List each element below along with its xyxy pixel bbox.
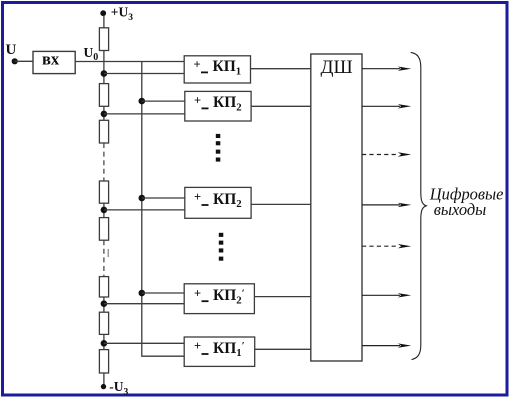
node bus junction to U3	[139, 195, 146, 202]
resistor R3	[99, 120, 108, 143]
label KP2 middle	[194, 190, 242, 210]
wire ladder segment R7-R8	[103, 334, 105, 349]
op-amp U4 comparator KP2' box	[184, 284, 254, 314]
resistor R4	[99, 181, 108, 203]
wire dashed ladder segment R3-R4	[103, 143, 105, 181]
resistor R2	[99, 84, 108, 107]
svg-text:+U3: +U3	[111, 5, 133, 24]
svg-text:+: +	[194, 190, 201, 204]
svg-text:выходы: выходы	[434, 200, 486, 219]
node -U3 terminal	[101, 384, 106, 389]
label KP1'	[194, 339, 245, 359]
svg-text:+: +	[194, 286, 201, 300]
op-amp U2 comparator KP2 box	[185, 91, 251, 121]
wire output arrow 1	[362, 67, 411, 71]
wire tap4 to U4 minus input	[104, 303, 184, 305]
wire bus to U2 plus input	[142, 100, 185, 102]
wire ladder segment R2-R3	[103, 106, 105, 120]
wire U1 output to DSh	[251, 68, 311, 70]
op-amp U3 comparator KP2 middle box	[185, 187, 251, 218]
wire U2 output to DSh	[251, 105, 311, 107]
wire dashed ladder segment R5-R6	[103, 240, 105, 276]
label KP1	[194, 58, 242, 78]
wire R8 to -U3 terminal	[103, 373, 105, 385]
decoder U6 DSh box	[311, 54, 362, 361]
wire bus to U4 plus input	[142, 292, 184, 294]
svg-text:+: +	[194, 339, 201, 353]
svg-text:ДШ: ДШ	[321, 57, 353, 78]
resistor R5	[99, 218, 108, 241]
ellipsis dots group 1	[216, 134, 221, 162]
input buffer BX box	[33, 51, 75, 73]
resistor R8	[99, 350, 108, 373]
wire U terminal to BX box	[15, 60, 33, 62]
wire ladder segment R6-R7	[103, 297, 105, 312]
svg-text:вх: вх	[42, 50, 60, 69]
node +U3 terminal	[100, 10, 106, 16]
wire output arrow 7	[362, 343, 411, 347]
stray dash mark	[107, 249, 109, 257]
wire from +U3 to R1	[103, 16, 105, 28]
node tap 5 junction	[101, 340, 108, 347]
label KP2	[194, 94, 242, 114]
label KP2'	[194, 286, 245, 306]
svg-text:U: U	[6, 42, 17, 58]
resistor R6	[99, 277, 108, 297]
wire U4 output to DSh	[254, 296, 310, 298]
resistor R7	[99, 312, 108, 334]
svg-text:+: +	[194, 94, 201, 108]
node tap 1 junction	[101, 70, 108, 77]
wire ladder segment R4-R5	[103, 203, 105, 217]
wire output arrow 3 dashed	[362, 152, 411, 156]
svg-text:+: +	[194, 58, 201, 72]
wire bus to U3 plus input	[142, 197, 185, 199]
wire output arrow 5 dashed	[362, 244, 411, 248]
node U input terminal	[12, 58, 18, 64]
wire tap5 to U5 plus input	[104, 342, 184, 344]
ellipsis dots group 2	[219, 233, 224, 261]
brace for outputs	[411, 52, 427, 359]
node tap 3 junction	[101, 207, 108, 214]
wire U3 output to DSh	[251, 203, 311, 205]
wire tap3 to U3 minus input	[104, 209, 185, 211]
op-amp U1 comparator KP1 box	[184, 56, 250, 83]
wire ladder segment R1-R2	[103, 51, 105, 84]
wire tap1 to U1 minus input	[104, 73, 184, 75]
node bus junction to U4	[139, 290, 146, 297]
wire output arrow 4	[362, 203, 411, 207]
wire tap2 to U2 minus input	[104, 113, 185, 115]
svg-text:U0: U0	[84, 45, 99, 63]
node bus junction to U2	[139, 98, 146, 105]
op-amp U5 comparator KP1' box	[184, 337, 255, 366]
resistor R1	[99, 28, 108, 51]
wire U0 main line from BX to comparator U1 plus input	[75, 61, 184, 63]
wire output arrow 6	[362, 293, 411, 297]
node tap 2 junction	[101, 111, 108, 118]
wire output arrow 2	[362, 104, 411, 108]
wire U0 bus vertical	[142, 62, 184, 357]
wire U5 output to DSh	[255, 348, 311, 350]
node tap 4 junction	[101, 300, 108, 307]
